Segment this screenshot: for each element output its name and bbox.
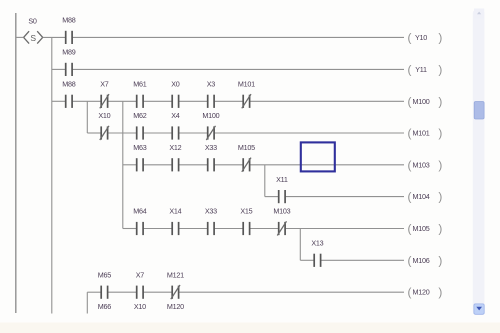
coil M104: [408, 190, 443, 204]
svg-text:(: (: [408, 285, 412, 299]
svg-text:X33: X33: [205, 143, 217, 152]
svg-text:X10: X10: [98, 111, 110, 120]
wire row 1 (rail to STL S0): [16, 36, 24, 38]
svg-text:M88: M88: [62, 80, 75, 89]
svg-text:M100: M100: [413, 97, 430, 106]
contact M61 (NO): [133, 80, 146, 108]
svg-text:X14: X14: [169, 207, 181, 216]
contact M88 (NO): [62, 80, 75, 108]
svg-text:X7: X7: [100, 80, 109, 89]
svg-text:): ): [438, 222, 442, 236]
junction row5-row6 (branch to X11): [264, 165, 266, 197]
svg-text:X10: X10: [134, 302, 146, 311]
contact M62 (NO): [133, 111, 146, 139]
svg-text:M105: M105: [238, 143, 255, 152]
svg-text:M66: M66: [98, 302, 111, 311]
wire row 1 (STL to contact M88 and to coil Y10): [43, 36, 404, 38]
contact X7 (NC): [100, 80, 109, 109]
svg-text:(: (: [408, 94, 412, 108]
wire row 7: [123, 228, 404, 230]
contact M121 (NC): [167, 270, 184, 299]
svg-text:X3: X3: [207, 80, 216, 89]
wire row 9: [87, 291, 404, 293]
svg-text:(: (: [408, 30, 412, 44]
svg-text:M63: M63: [133, 143, 146, 152]
svg-text:(: (: [408, 222, 412, 236]
coil M120: [408, 285, 443, 299]
STL step contact S0: [24, 17, 43, 44]
svg-text:M120: M120: [167, 302, 184, 311]
junction row3-row4 left (node before X7/X10 parallel): [86, 101, 88, 133]
svg-text:): ): [438, 158, 442, 172]
svg-text:S0: S0: [28, 17, 37, 26]
contact X7 (NO): [136, 270, 145, 298]
contact M89 (NO): [62, 48, 75, 76]
svg-text:M61: M61: [133, 80, 146, 89]
contact M103 (NC): [273, 207, 290, 236]
svg-text:X13: X13: [311, 239, 323, 248]
svg-text:(: (: [408, 126, 412, 140]
contact M105 (NC): [238, 143, 255, 172]
contact M64 (NO): [133, 207, 146, 235]
contact X13 (NO): [311, 239, 323, 267]
svg-text:): ): [438, 190, 442, 204]
contact X12 (NO): [169, 143, 181, 171]
svg-text:X4: X4: [171, 111, 180, 120]
svg-text:M89: M89: [62, 48, 75, 57]
contact X10 (NC): [98, 111, 110, 140]
junction row7-row8 (branch to X13): [299, 229, 301, 261]
svg-text:(: (: [408, 253, 412, 267]
svg-text:): ): [438, 94, 442, 108]
svg-text:Y11: Y11: [415, 65, 427, 74]
svg-text:M121: M121: [167, 270, 184, 279]
coil Y10: [408, 30, 443, 44]
svg-text:M106: M106: [413, 256, 430, 265]
contact X15 (NO): [240, 207, 252, 235]
STL bus (vertical rail after S0 step contact): [51, 37, 53, 313]
wire row 5: [123, 164, 404, 166]
svg-text:M88: M88: [62, 16, 75, 25]
svg-text:M100: M100: [202, 111, 219, 120]
svg-text:): ): [438, 285, 442, 299]
svg-text:): ): [438, 30, 442, 44]
coil M100: [408, 94, 443, 108]
svg-text:X0: X0: [171, 80, 180, 89]
svg-text:X11: X11: [276, 175, 288, 184]
svg-text:X7: X7: [136, 270, 145, 279]
contact X3 (NO): [207, 80, 216, 108]
scrollbar (vertical, right edge): [473, 9, 485, 315]
contact M63 (NO): [133, 143, 146, 171]
svg-text:): ): [438, 253, 442, 267]
contact X0 (NO): [171, 80, 180, 108]
selection cursor (blue cell rectangle): [301, 142, 335, 171]
left power rail: [15, 13, 17, 313]
svg-text:M101: M101: [413, 129, 430, 138]
bottom window strip: [0, 323, 500, 333]
svg-text:(: (: [408, 190, 412, 204]
svg-text:X15: X15: [240, 207, 252, 216]
wire row 3: [52, 100, 404, 102]
svg-text:M62: M62: [133, 111, 146, 120]
coil Y11: [408, 62, 443, 76]
svg-text:(: (: [408, 158, 412, 172]
svg-text:X33: X33: [205, 207, 217, 216]
contact X11 (NO): [276, 175, 288, 203]
contact M101 (NC): [238, 80, 255, 109]
svg-text:M64: M64: [133, 207, 146, 216]
svg-text:M104: M104: [413, 192, 430, 201]
svg-text:): ): [438, 126, 442, 140]
svg-text:M105: M105: [413, 224, 430, 233]
wire row 4: [87, 132, 404, 134]
svg-text:S: S: [30, 33, 36, 43]
wire row 8: [300, 259, 404, 261]
contact X14 (NO): [169, 207, 181, 235]
svg-text:M65: M65: [98, 270, 111, 279]
contact X4 (NO): [171, 111, 180, 139]
svg-text:M103: M103: [413, 160, 430, 169]
svg-text:Y10: Y10: [415, 33, 427, 42]
svg-text:M103: M103: [273, 207, 290, 216]
svg-text:M120: M120: [413, 288, 430, 297]
contact M100 (NC): [202, 111, 219, 140]
contact M88 (NO): [62, 16, 75, 44]
junction row9-row10 left (parallel branch M65/M66): [86, 292, 88, 313]
coil M101: [408, 126, 443, 140]
contact X33 (NO): [205, 143, 217, 171]
contact M65 (NO): [98, 270, 111, 298]
svg-text:(: (: [408, 62, 412, 76]
wire row 2: [52, 68, 404, 70]
coil M103: [408, 158, 443, 172]
svg-text:): ): [438, 62, 442, 76]
svg-text:X12: X12: [169, 143, 181, 152]
coil M105: [408, 222, 443, 236]
coil M106: [408, 253, 443, 267]
svg-text:M101: M101: [238, 80, 255, 89]
contact X33 (NO): [205, 207, 217, 235]
wire row 6: [265, 196, 404, 198]
junction row3-row7 (bus node after X7, feeding rows 4,5,7): [122, 101, 124, 228]
